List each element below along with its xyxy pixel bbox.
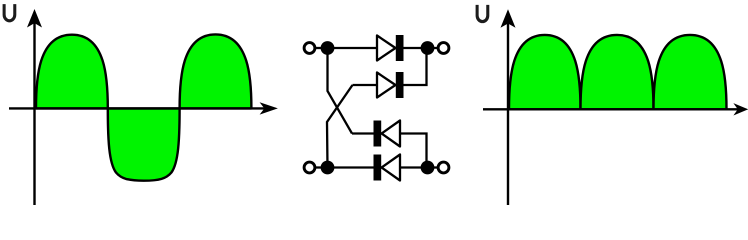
terminal DC output top-right (open circle) bbox=[438, 43, 449, 54]
right graph waveform: rectified humps (filled green) bbox=[509, 35, 727, 109]
wire node to terminal (bottom-right) bbox=[433, 166, 439, 168]
terminal AC input bottom-left (open circle) bbox=[304, 162, 315, 173]
wire D3 anode right and down to bottom-right node bbox=[400, 134, 427, 168]
right graph horizontal axis (t axis) bbox=[483, 104, 747, 114]
diode D2 (second row, pointing right) bbox=[377, 72, 404, 98]
wire D1 cathode to top-right node bbox=[404, 47, 428, 49]
wire top-left node down to crossing bbox=[328, 48, 353, 134]
wire D2 anode horizontal stub bbox=[353, 84, 378, 86]
wire bottom-left node to D4 cathode bbox=[328, 166, 374, 168]
node bottom-left (junction dot) bbox=[321, 161, 335, 175]
wire terminal to node (top-left) bbox=[315, 47, 322, 49]
right graph vertical axis (U axis) bbox=[502, 11, 515, 205]
node U label (right graph) bbox=[476, 5, 490, 23]
node U label (left graph) bbox=[3, 4, 17, 22]
diode D4 (bottom, pointing left) bbox=[374, 155, 401, 181]
left graph vertical axis (U axis) bbox=[28, 10, 41, 205]
wire D2 anode bend down-left through crossing to bottom-left node bbox=[327, 85, 353, 168]
node bottom-right (junction dot) bbox=[421, 161, 435, 175]
terminal AC input top-left (open circle) bbox=[304, 43, 315, 54]
wire D4 anode to bottom-right node bbox=[400, 166, 428, 168]
wire D3 cathode horizontal stub bbox=[352, 132, 374, 134]
wire top-left node to D1 anode bbox=[328, 47, 378, 49]
diode D3 (third row, pointing left) bbox=[374, 121, 401, 147]
left graph waveform: full sine (filled green) bbox=[36, 34, 251, 180]
node top-left (junction dot) bbox=[321, 41, 335, 55]
terminal DC output bottom-right (open circle) bbox=[438, 162, 449, 173]
wire node to terminal (top-right) bbox=[433, 47, 439, 49]
diode D1 (top, pointing right) bbox=[377, 35, 404, 61]
left graph horizontal axis (t axis) bbox=[9, 103, 276, 113]
wire terminal to node (bottom-left) bbox=[315, 166, 322, 168]
node top-right (junction dot) bbox=[421, 41, 435, 55]
wire D2 cathode right and up to top-right node bbox=[404, 48, 427, 85]
